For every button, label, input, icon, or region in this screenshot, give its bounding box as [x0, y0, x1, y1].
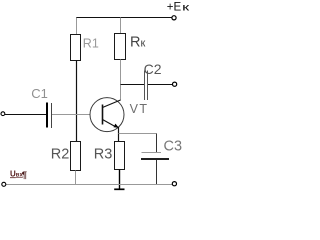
svg-text:R2: R2	[51, 147, 70, 163]
svg-text:+Eк: +Eк	[167, 2, 190, 14]
svg-text:C1: C1	[31, 86, 48, 101]
svg-text:Rк: Rк	[130, 35, 145, 51]
svg-text:C2: C2	[144, 61, 162, 77]
svg-text:R1: R1	[83, 36, 99, 50]
svg-text:C3: C3	[164, 138, 183, 154]
svg-text:R3: R3	[94, 147, 113, 163]
svg-text:¶: ¶	[22, 170, 27, 181]
svg-text:VT: VT	[130, 102, 149, 116]
